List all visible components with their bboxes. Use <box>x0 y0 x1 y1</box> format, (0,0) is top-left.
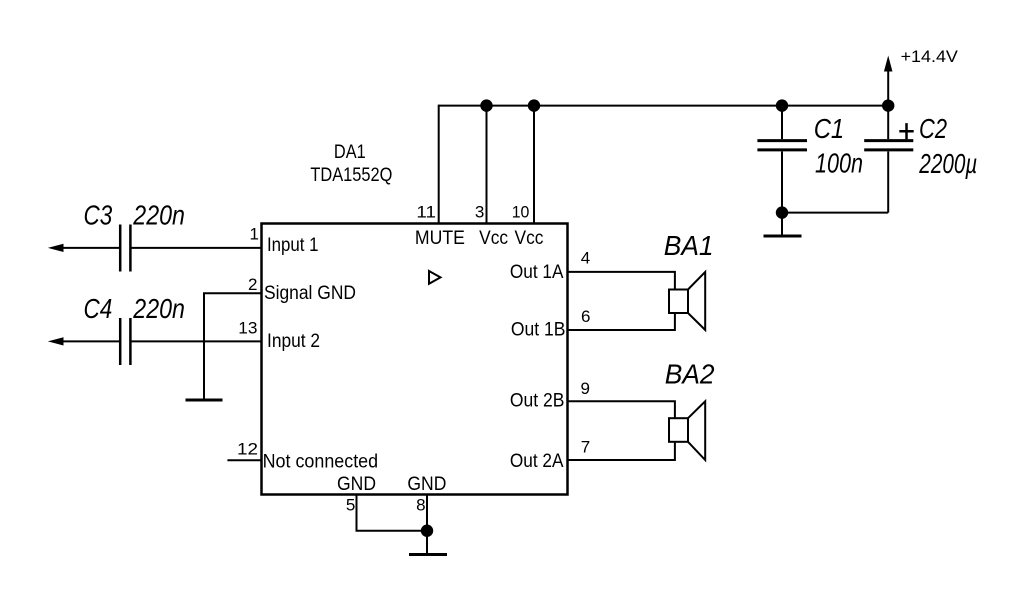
node junction dot C1/rail <box>776 99 788 111</box>
wire pin 8 GND <box>426 494 428 555</box>
svg-text:5: 5 <box>346 496 355 515</box>
capacitor C1 100n <box>781 106 783 139</box>
svg-text:4: 4 <box>581 248 590 267</box>
svg-text:+14.4V: +14.4V <box>901 47 959 66</box>
wire pin 5 GND <box>357 494 428 531</box>
wire top supply rail <box>439 105 889 107</box>
svg-text:C3: C3 <box>84 199 113 230</box>
svg-text:220n: 220n <box>132 199 184 230</box>
svg-text:Input 1: Input 1 <box>267 235 319 256</box>
svg-text:2200µ: 2200µ <box>919 148 978 179</box>
input arrow pin 13 <box>50 338 63 345</box>
svg-text:BA2: BA2 <box>665 359 715 390</box>
svg-text:100n: 100n <box>815 147 863 178</box>
wire C3 to pin 1 <box>132 247 262 249</box>
svg-text:GND: GND <box>407 474 446 495</box>
ground signal gnd <box>186 399 223 402</box>
svg-text:GND: GND <box>337 474 376 495</box>
capacitor C2 2200u electrolytic <box>887 106 889 139</box>
wire pin 3 vertical <box>486 106 488 224</box>
wire pin 11 vertical <box>438 105 440 224</box>
capacitor C3 220n <box>119 225 122 272</box>
svg-text:1: 1 <box>250 225 259 244</box>
svg-text:Out 2B: Out 2B <box>510 391 565 412</box>
svg-text:C1: C1 <box>814 113 845 144</box>
svg-text:12: 12 <box>237 440 258 459</box>
svg-text:7: 7 <box>581 438 590 457</box>
svg-text:Vcc: Vcc <box>479 228 508 249</box>
wire pin 4 to speaker BA1 <box>568 272 675 290</box>
polarity plus sign of C2 <box>899 123 913 139</box>
svg-text:9: 9 <box>581 379 590 398</box>
node junction dot supply/rail <box>882 99 894 111</box>
svg-text:Out 1B: Out 1B <box>511 320 566 341</box>
svg-text:220n: 220n <box>132 293 184 324</box>
wire arrow to C4 <box>61 340 119 342</box>
svg-text:Signal GND: Signal GND <box>264 283 356 304</box>
svg-text:BA1: BA1 <box>664 230 714 261</box>
ground bottom <box>409 553 447 556</box>
node junction dot gnd <box>421 525 433 537</box>
svg-text:11: 11 <box>416 202 436 221</box>
svg-text:Vcc: Vcc <box>515 228 544 249</box>
capacitor C4 220n <box>119 318 122 365</box>
svg-text:8: 8 <box>416 496 425 515</box>
svg-text:2: 2 <box>248 275 257 294</box>
wire pin 12 stub <box>227 459 261 461</box>
ground below C1 <box>764 235 802 238</box>
node junction dot pin3/rail <box>480 99 492 111</box>
wire pin 10 vertical <box>533 106 535 224</box>
wire pin 9 to speaker BA2 <box>568 401 675 418</box>
wire C2 bottom to C1 node <box>782 212 888 214</box>
input arrow pin 1 <box>50 244 63 251</box>
svg-text:C4: C4 <box>84 293 113 324</box>
svg-text:DA1: DA1 <box>334 142 366 163</box>
wire C4 to pin 13 <box>132 340 262 342</box>
power +14.4V arrow <box>887 69 889 106</box>
wire pin 6 to speaker BA1 <box>568 313 675 330</box>
svg-text:MUTE: MUTE <box>415 228 465 249</box>
speaker BA1 <box>669 290 688 314</box>
svg-text:3: 3 <box>475 202 484 221</box>
svg-text:Input 2: Input 2 <box>267 331 320 352</box>
wire pin 7 to speaker BA2 <box>568 442 675 460</box>
svg-text:TDA1552Q: TDA1552Q <box>310 165 392 186</box>
svg-text:Out 1A: Out 1A <box>510 262 564 283</box>
svg-text:13: 13 <box>238 318 257 337</box>
svg-text:Not connected: Not connected <box>263 452 379 473</box>
svg-text:Out 2A: Out 2A <box>510 451 564 472</box>
svg-text:6: 6 <box>581 307 590 326</box>
svg-text:C2: C2 <box>919 113 947 144</box>
speaker BA2 <box>669 418 688 442</box>
IC U/DA1 body TDA1552Q <box>262 224 568 495</box>
node junction dot C1/C2 bottom <box>776 206 788 218</box>
amplifier triangle marker inside DA1 <box>429 271 441 284</box>
svg-text:10: 10 <box>512 202 530 221</box>
wire pin 2 signal gnd <box>204 293 262 398</box>
node junction dot pin10/rail <box>528 99 540 111</box>
wire arrow to C3 <box>61 247 119 249</box>
